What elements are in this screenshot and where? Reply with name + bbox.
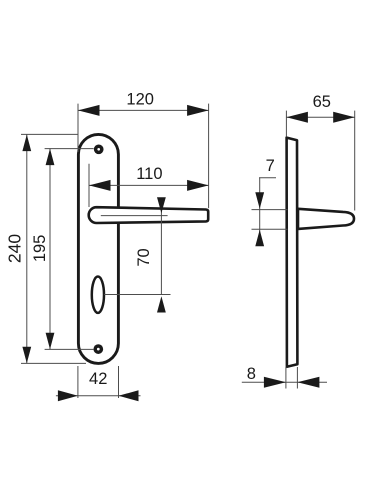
dimension line 8 <box>242 381 327 383</box>
svg-text:42: 42 <box>89 370 107 388</box>
arrow 195 bottom <box>46 333 55 350</box>
arrow 65 left <box>286 112 308 123</box>
extension line 195 bottom <box>45 348 94 350</box>
extension line 42 left <box>77 366 79 398</box>
lever handle front view <box>89 207 209 223</box>
top screw center dot <box>97 148 100 151</box>
extension line 8 right <box>296 367 298 389</box>
extension line 240 bottom <box>21 362 86 364</box>
arrow 8 right <box>297 377 319 388</box>
svg-text:120: 120 <box>126 91 154 109</box>
dimension line 42 <box>56 395 141 397</box>
arrow 240 top <box>22 135 31 152</box>
dimension line 195 <box>49 148 51 349</box>
extension line 65 right <box>354 111 356 211</box>
dimension line 120 <box>78 109 209 111</box>
bottom screw hole <box>93 344 103 354</box>
extension line 65 left <box>285 111 287 137</box>
plate front view outline <box>78 134 118 363</box>
arrow 70 top <box>157 197 166 213</box>
arrow 7 bottom <box>255 230 264 247</box>
dimension line 70 vertical <box>160 209 162 295</box>
lever handle side view <box>298 209 354 229</box>
arrow 70 bottom <box>157 296 166 312</box>
bottom screw center dot <box>97 348 100 351</box>
lever inner highlight line <box>101 215 168 217</box>
svg-text:195: 195 <box>31 235 49 263</box>
leader vertical 7 <box>259 178 261 246</box>
dimension line 240 <box>26 134 28 363</box>
extension line 7 bottom <box>252 228 288 230</box>
arrow 120 left <box>78 105 100 116</box>
svg-text:8: 8 <box>247 365 256 383</box>
leader shelf 7 <box>259 177 276 179</box>
arrow 7 top <box>255 192 264 209</box>
arrow 65 right <box>333 112 355 123</box>
svg-text:7: 7 <box>266 157 275 175</box>
top screw hole <box>94 144 104 154</box>
extension line 120/110 right <box>208 104 210 209</box>
arrow 42 right <box>119 390 139 401</box>
arrow 8 left <box>264 377 286 388</box>
extension line 110 left <box>88 164 90 207</box>
dimension line 110 <box>89 184 209 186</box>
extension line 120 left <box>77 104 79 152</box>
extension line 8 left <box>285 367 287 389</box>
extension line 7 top <box>252 209 288 211</box>
extension line 195 top <box>45 148 94 150</box>
dimension line 65 <box>286 116 354 118</box>
keyhole oval <box>92 277 104 313</box>
svg-text:110: 110 <box>136 165 162 183</box>
extension line keyhole center <box>104 294 170 296</box>
extension line 42 right <box>118 366 120 398</box>
arrow 110 right <box>187 180 209 191</box>
arrow 240 bottom <box>22 347 31 364</box>
svg-text:70: 70 <box>135 248 153 266</box>
arrow 42 left <box>58 390 78 401</box>
svg-text:240: 240 <box>4 234 24 263</box>
arrow 195 top <box>46 149 55 166</box>
arrow 110 left <box>89 180 111 191</box>
arrow 120 right <box>187 105 209 116</box>
extension line 240 top <box>21 133 78 135</box>
svg-text:65: 65 <box>313 93 331 111</box>
profile plate side view <box>287 138 298 367</box>
